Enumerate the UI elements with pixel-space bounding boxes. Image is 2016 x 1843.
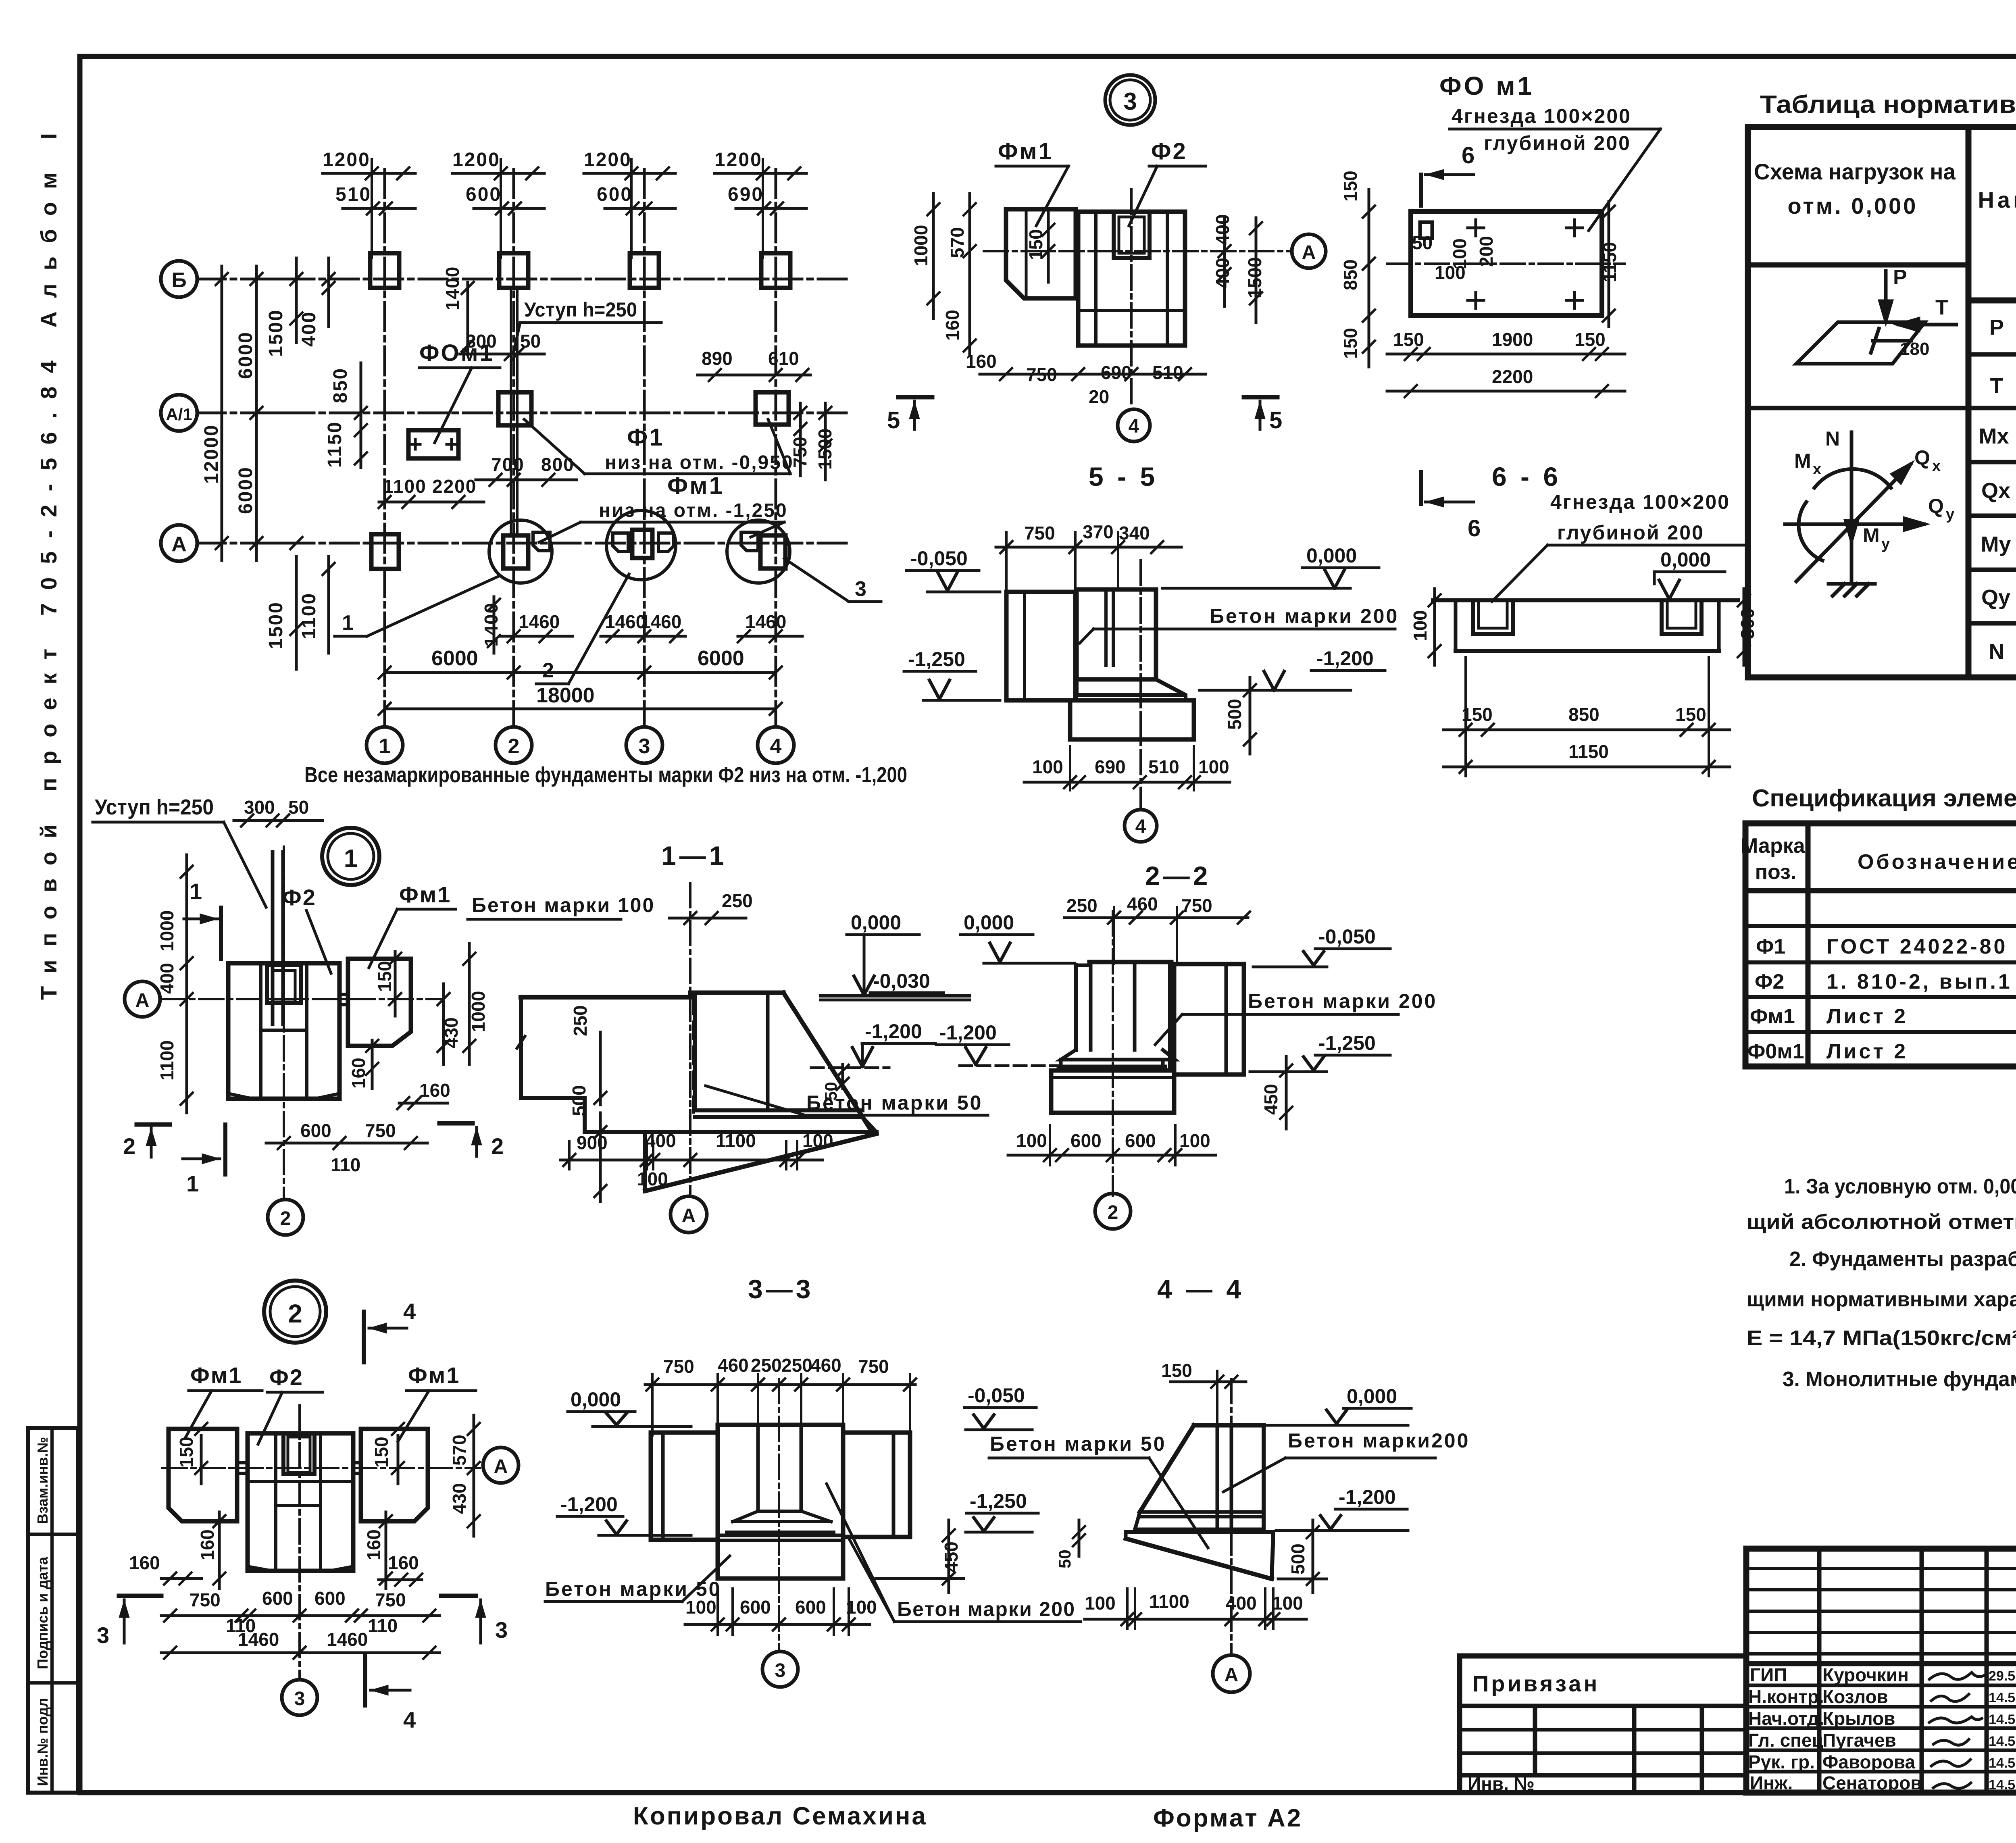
svg-text:Фм1: Фм1 [408,1362,460,1388]
axis [778,1379,780,1649]
svg-text:160: 160 [942,310,963,341]
svg-text:1—1: 1—1 [661,841,727,870]
5-5 axis [1139,560,1142,808]
svg-text:600: 600 [795,1597,826,1618]
svg-text:1200: 1200 [452,149,500,171]
6-6 top line [1433,598,1738,602]
svg-text:2: 2 [508,735,520,758]
svg-text:Фм1: Фм1 [667,472,724,499]
svg-text:100: 100 [1410,610,1431,641]
svg-text:4: 4 [403,1707,416,1733]
svg-text:1: 1 [342,611,354,635]
svg-text:ГОСТ 24022-80: ГОСТ 24022-80 [1826,935,2008,958]
detail3 dims [910,214,1265,407]
svg-text:1900: 1900 [1492,329,1533,350]
svg-text:1200: 1200 [584,149,632,171]
main column block [228,963,339,1099]
top dims [1066,893,1212,916]
svg-text:Q: Q [1928,495,1944,517]
svg-text:Взам.инв.№: Взам.инв.№ [34,1437,51,1524]
bottom dims [1085,1591,1303,1614]
svg-text:1200: 1200 [323,149,371,171]
svg-text:750: 750 [663,1356,694,1377]
loads table outer [1748,127,2016,677]
footings on axis А/1 [498,392,531,425]
svg-text:А/1: А/1 [166,405,192,424]
svg-text:Фм1: Фм1 [998,138,1053,165]
svg-text:500: 500 [1287,1543,1308,1574]
svg-text:Уступ h=250: Уступ h=250 [95,795,214,819]
svg-text:Пугачев: Пугачев [1822,1730,1896,1751]
svg-text:890: 890 [702,348,733,369]
svg-text:50: 50 [288,797,309,818]
svg-text:900: 900 [577,1132,608,1153]
svg-text:Формат А2: Формат А2 [1153,1804,1302,1832]
bottom dims 6000 6000 18000 [431,647,744,707]
svg-text:Ф2: Ф2 [282,885,317,910]
svg-text:-1,250: -1,250 [1318,1032,1376,1054]
svg-text:160: 160 [419,1080,450,1101]
footing ФОм1 rect [408,430,458,458]
spec table rows [1745,888,2016,893]
5-5 top dims [1024,521,1150,544]
svg-text:-0,050: -0,050 [910,547,968,570]
6-6 socket right [1662,600,1702,634]
svg-text:у: у [1881,535,1890,552]
svg-text:Инж.: Инж. [1750,1772,1793,1793]
svg-text:250: 250 [722,890,753,911]
left Фм1 block [169,1429,237,1521]
svg-text:1100: 1100 [298,592,320,639]
6-6 dims [1410,608,1758,762]
axis circle А [161,525,197,561]
svg-text:2: 2 [288,1299,302,1328]
detail circle 2 [264,1281,326,1343]
slab and wedge [645,1130,877,1134]
svg-text:2: 2 [123,1133,135,1159]
svg-text:150: 150 [1340,171,1361,202]
svg-text:850: 850 [330,367,351,403]
svg-text:Бетон марки 50: Бетон марки 50 [806,1091,983,1114]
svg-text:Ф2: Ф2 [269,1364,304,1390]
NOTES [1747,1175,2016,1391]
detail3 axis circle А [1292,234,1326,268]
svg-text:50: 50 [1412,232,1433,253]
5-5 flare [1077,679,1186,695]
axis circle 2 [496,727,532,763]
svg-text:Фм1: Фм1 [399,882,451,907]
right Фм1 block [361,1429,428,1521]
middle Ф2 block [248,1433,353,1571]
foundation top [690,991,783,995]
load rows text [1979,301,2016,677]
signatures squiggles [1929,1672,1986,1788]
svg-text:850: 850 [1568,704,1599,725]
svg-text:0,000: 0,000 [571,1388,621,1411]
svg-text:18000: 18000 [536,684,595,707]
svg-text:600: 600 [314,1588,346,1609]
svg-text:отм. 0,000: отм. 0,000 [1788,193,1918,219]
svg-text:600: 600 [1070,1130,1102,1151]
bottom dims 1460 [519,611,786,632]
svg-text:4: 4 [1129,416,1139,437]
svg-text:1460: 1460 [519,611,560,632]
svg-text:150: 150 [1393,329,1424,350]
svg-text:4: 4 [403,1299,416,1324]
svg-text:5: 5 [1269,407,1282,433]
svg-text:12000: 12000 [201,424,222,484]
axis circle 1 [367,727,403,763]
svg-text:500: 500 [1224,699,1245,730]
connection neck [339,993,348,996]
axis line А [197,542,847,545]
svg-text:100: 100 [1085,1593,1116,1614]
TOPMID [887,71,1758,842]
svg-text:А: А [171,533,187,556]
svg-text:Уступ h=250: Уступ h=250 [524,298,637,321]
привязан table [1460,1656,1746,1793]
svg-text:6 - 6: 6 - 6 [1492,462,1561,491]
svg-text:100: 100 [1032,756,1063,777]
svg-text:14.5.84: 14.5.84 [1989,1712,2016,1727]
svg-text:200: 200 [1476,236,1497,267]
svg-text:1100: 1100 [1149,1591,1189,1612]
svg-text:Бетон марки 100: Бетон марки 100 [472,894,655,916]
svg-text:750: 750 [365,1120,396,1141]
Фм1 block [348,959,411,1046]
svg-text:2200: 2200 [1492,366,1533,387]
svg-text:500: 500 [569,1085,589,1116]
svg-text:400: 400 [1212,258,1233,289]
svg-text:1200: 1200 [714,149,762,171]
svg-text:Гл. спец: Гл. спец [1748,1730,1823,1751]
svg-text:700: 700 [491,454,525,475]
main shape [1194,1423,1264,1428]
5-5 left wall [1006,592,1075,700]
detail3 axis cross [984,250,1290,252]
svg-text:600: 600 [597,184,633,205]
svg-text:5: 5 [887,407,900,433]
axis line Б [197,278,847,281]
svg-text:Инв.№ подл: Инв.№ подл [34,1698,51,1786]
svg-text:4гнезда 100×200: 4гнезда 100×200 [1550,491,1730,513]
svg-text:Лист 2: Лист 2 [1826,1040,1908,1063]
wings [651,1433,718,1540]
svg-text:-1,250: -1,250 [908,648,965,671]
flare pedestal [1061,1050,1175,1060]
svg-text:Qх: Qх [1981,479,2010,503]
svg-text:Лист 2: Лист 2 [1826,1005,1908,1028]
svg-text:3: 3 [294,1688,305,1710]
svg-text:150: 150 [1675,704,1706,725]
svg-text:N: N [1825,427,1840,450]
svg-text:6: 6 [1468,515,1481,541]
column group [1089,960,1171,964]
svg-text:Р: Р [1989,315,2004,339]
section 4 marks [362,1312,366,1362]
svg-text:750: 750 [1181,895,1212,916]
axis line 2 [512,169,515,727]
svg-text:460: 460 [810,1355,841,1376]
svg-text:Ф1: Ф1 [627,424,664,451]
svg-text:у: у [1946,506,1954,523]
svg-text:150: 150 [371,1437,392,1468]
5-5 base slab [1070,700,1194,739]
svg-text:100: 100 [1016,1130,1047,1151]
svg-text:850: 850 [1340,259,1361,290]
svg-text:1100: 1100 [156,1040,177,1081]
svg-text:Сенаторов: Сенаторов [1822,1772,1922,1793]
svg-text:N: N [1989,640,2005,664]
svg-text:570: 570 [947,227,968,258]
footings on axis Б [370,253,399,288]
axis line 3 [643,169,646,727]
right wing [1174,964,1244,1075]
svg-text:510: 510 [335,184,371,205]
axis [689,883,691,1195]
svg-text:460: 460 [718,1355,749,1376]
svg-text:0,000: 0,000 [1347,1385,1397,1408]
svg-text:1: 1 [379,735,391,758]
svg-text:щий абсолютной отметке на: щий абсолютной отметке на местности [1747,1210,2016,1234]
svg-text:750: 750 [190,1589,221,1610]
svg-text:0,000: 0,000 [964,911,1014,934]
svg-text:Привязан: Привязан [1472,1671,1599,1696]
top dims 1200 row [323,149,806,258]
bottom dims [1016,1130,1210,1151]
svg-text:Т: Т [1990,374,2004,398]
svg-text:1: 1 [344,845,358,873]
svg-text:А: А [494,1456,508,1477]
svg-text:М: М [1794,450,1811,472]
svg-text:1100: 1100 [383,476,427,497]
svg-text:610: 610 [768,348,799,369]
svg-text:ГИП: ГИП [1750,1664,1787,1685]
svg-text:2: 2 [542,659,554,682]
svg-text:1500: 1500 [265,309,287,357]
svg-text:1000: 1000 [156,910,177,952]
svg-text:-1,200: -1,200 [560,1493,618,1516]
axis [1230,1379,1233,1653]
svg-text:Все незамаркированные фундаме: Все незамаркированные фундаменты марки Ф… [304,763,907,787]
svg-text:1500: 1500 [265,601,287,649]
detail3 bottom axis circle 4 [1118,409,1150,441]
svg-text:0,000: 0,000 [1306,544,1357,567]
svg-text:800: 800 [541,454,575,475]
TITLEBLOCK [1460,1549,2016,1795]
SPECTABLE [1741,785,2016,1066]
svg-text:х: х [1813,461,1821,478]
footing on axis А axis1 [371,534,399,569]
svg-text:3: 3 [97,1622,109,1648]
axis line 1 [383,169,386,727]
svg-text:Спецификация элементов к схеме: Спецификация элементов к схеме расположе… [1752,785,2016,812]
svg-text:Копировал Семахина: Копировал Семахина [633,1802,927,1830]
svg-text:400: 400 [298,311,320,347]
svg-text:2200: 2200 [432,476,477,497]
svg-text:щими нормативными характерис: щими нормативными характеристиками: φ"=0… [1747,1288,2016,1311]
svg-text:Курочкин: Курочкин [1822,1664,1909,1685]
svg-text:750: 750 [1024,523,1055,544]
svg-text:2—2: 2—2 [1145,861,1211,891]
floor line [521,995,695,1000]
svg-text:600: 600 [740,1597,771,1618]
svg-text:29.5.84: 29.5.84 [1989,1668,2016,1684]
svg-text:5 - 5: 5 - 5 [1089,462,1158,491]
svg-text:180: 180 [1900,339,1929,359]
ФОм1 6 marks [1419,175,1423,206]
SEC22 [936,861,1437,1229]
svg-text:600: 600 [1125,1130,1156,1151]
svg-text:14.5.84: 14.5.84 [1989,1690,2016,1706]
step [521,1096,585,1100]
svg-text:100: 100 [637,1168,668,1189]
detail1 dims [156,910,489,1175]
Фм1 group circle axis4 [727,520,790,583]
svg-text:Е = 14,7 МПа(150кгс/см²), γ=1: Е = 14,7 МПа(150кгс/см²), γ=1,8 т/м³, Кг… [1747,1327,2016,1350]
svg-text:1000: 1000 [468,991,489,1032]
svg-text:Инв. №: Инв. № [1468,1773,1535,1794]
axis circle 4 [758,727,794,763]
svg-text:6000: 6000 [235,331,256,379]
svg-text:400: 400 [156,963,177,994]
svg-text:250: 250 [751,1355,782,1376]
svg-text:300: 300 [244,797,275,818]
svg-text:Q: Q [1914,446,1930,469]
svg-text:4 — 4: 4 — 4 [1157,1274,1244,1304]
svg-text:-1,200: -1,200 [1339,1486,1396,1508]
axis circle 3 [626,727,662,763]
axis [1112,911,1114,1195]
central block [718,1425,843,1579]
axis circle 3 [282,1680,317,1715]
section 2 marks [137,1122,170,1127]
svg-text:110: 110 [368,1615,398,1636]
svg-text:100: 100 [1272,1593,1303,1614]
svg-text:160: 160 [348,1058,369,1089]
role/name texts [1748,1664,1922,1793]
dims [129,1435,470,1650]
svg-text:-1,200: -1,200 [865,1020,922,1043]
detail3 Фм1 block [1006,209,1076,298]
svg-text:1460: 1460 [745,611,786,632]
svg-text:Нагрузки: Нагрузки [1978,187,2016,212]
svg-text:глубиной 200: глубиной 200 [1484,132,1631,154]
svg-text:1100: 1100 [716,1130,756,1151]
svg-text:Му: Му [1981,532,2011,556]
svg-text:1000: 1000 [910,225,931,266]
svg-text:1150: 1150 [324,421,346,468]
loads table columns [1966,127,1972,677]
svg-text:Нач.отд.: Нач.отд. [1748,1708,1824,1729]
svg-text:Схема нагрузок на: Схема нагрузок на [1754,159,1956,184]
svg-text:Н.контр.: Н.контр. [1748,1686,1824,1707]
svg-text:Крылов: Крылов [1822,1708,1895,1729]
section mark 5 left [898,395,932,400]
svg-text:поз.: поз. [1755,860,1797,884]
-1,200 band [695,1108,862,1112]
note 1 [1747,1175,2016,1391]
svg-text:100: 100 [846,1597,877,1618]
svg-text:400: 400 [645,1130,676,1151]
svg-text:510: 510 [1148,756,1179,777]
slab wedge [1126,1530,1273,1534]
svg-text:690: 690 [1095,756,1126,777]
svg-text:250: 250 [1066,895,1098,916]
svg-text:Б: Б [171,269,186,292]
spec table texts [1741,834,2016,1065]
SEC44 [964,1274,1470,1692]
svg-text:600: 600 [262,1588,293,1609]
SEC11 [517,841,988,1233]
SEC33 [545,1274,1081,1687]
svg-text:ФО м1: ФО м1 [1439,71,1534,100]
svg-text:-0,050: -0,050 [968,1384,1025,1407]
svg-text:3: 3 [639,735,650,758]
dates [1989,1668,2016,1793]
axes sketch [1785,432,1924,596]
detail3 Ф2 block [1078,212,1185,346]
hidden face dashed [692,997,695,1112]
svg-text:750: 750 [858,1356,889,1377]
loads table header text [1754,143,2016,289]
svg-text:глубиной 200: глубиной 200 [1557,521,1704,544]
svg-text:Ф1: Ф1 [1756,935,1785,958]
svg-text:низ на отм. -0,950: низ на отм. -0,950 [605,452,794,473]
svg-text:Бетон марки 200: Бетон марки 200 [1210,605,1399,627]
axis circle Б [161,261,197,297]
svg-text:14.5.84: 14.5.84 [1989,1777,2016,1793]
svg-text:Обозначение: Обозначение [1858,850,2016,874]
svg-text:Т: Т [1935,296,1948,319]
svg-text:100: 100 [1179,1130,1210,1151]
svg-text:2. Фундаменты разработаны для: 2. Фундаменты разработаны для сухих непу… [1789,1247,2016,1271]
svg-text:150: 150 [1574,329,1606,350]
svg-text:М: М [1863,524,1880,547]
svg-text:Р: Р [1893,266,1907,289]
svg-text:1. За условную отм. 0,000 прин: 1. За условную отм. 0,000 принят уровень… [1784,1175,2016,1198]
axis line 4 [775,169,777,727]
svg-text:А: А [1225,1664,1239,1686]
svg-text:160: 160 [197,1529,218,1560]
svg-text:1460: 1460 [605,611,646,632]
svg-text:Козлов: Козлов [1822,1686,1888,1707]
svg-text:Бетон марки 50: Бетон марки 50 [990,1433,1166,1455]
spec table outer [1745,823,2016,1066]
thin empty rows [1746,1567,2016,1570]
svg-text:4: 4 [770,735,782,758]
svg-text:450: 450 [1260,1084,1281,1115]
svg-text:2: 2 [491,1133,504,1159]
svg-text:Ф2: Ф2 [1151,138,1187,165]
svg-text:Ф0м1: Ф0м1 [1747,1040,1804,1063]
svg-text:1460: 1460 [640,611,681,632]
svg-text:4гнезда 100×200: 4гнезда 100×200 [1452,105,1631,127]
svg-text:3: 3 [855,577,866,601]
svg-text:Бетон марки200: Бетон марки200 [1288,1429,1470,1452]
5-5 column [1077,589,1156,679]
svg-text:150: 150 [374,961,395,992]
LOADTABLE [1748,91,2016,677]
section mark 5 right [1244,395,1277,400]
svg-text:3: 3 [775,1660,786,1681]
belt wall [271,852,275,1024]
svg-text:0,000: 0,000 [1660,548,1711,571]
svg-text:1460: 1460 [238,1629,279,1650]
connection necks [237,1461,248,1464]
svg-text:100: 100 [685,1597,716,1618]
axis circle А/1 [161,395,197,431]
